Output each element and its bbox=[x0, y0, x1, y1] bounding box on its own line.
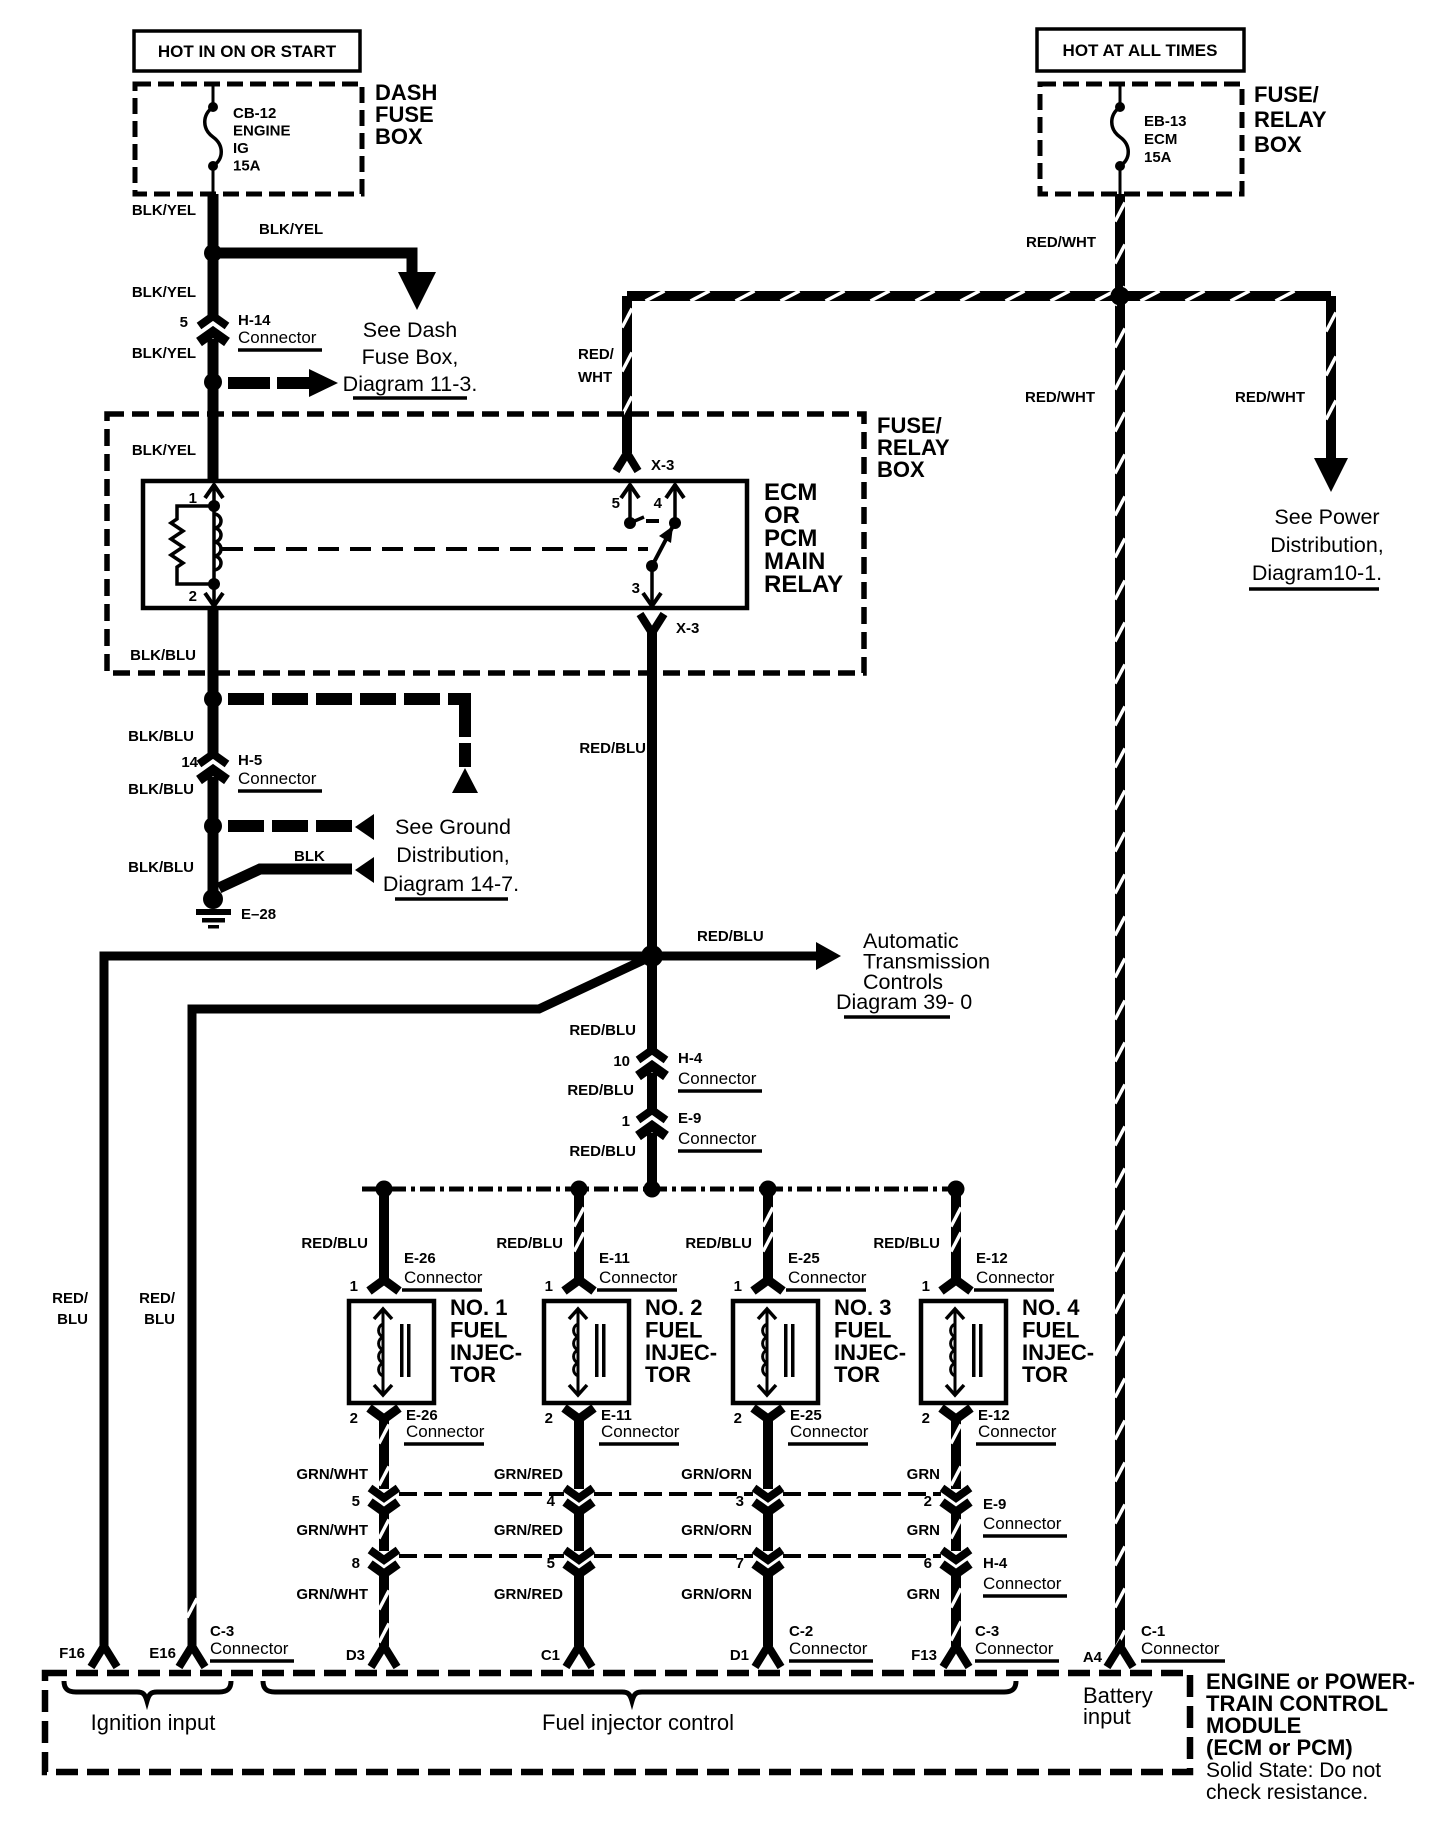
bus junction node x=956 bbox=[948, 1181, 965, 1198]
relay pin 1 wire bbox=[212, 484, 216, 506]
svg-text:RED/BLU: RED/BLU bbox=[301, 1235, 368, 1252]
wire RED/WHT horizontal bbox=[627, 291, 1331, 301]
relay actuation dashed line bbox=[222, 547, 648, 551]
connector H-5 bbox=[199, 754, 227, 780]
svg-text:RED/BLU: RED/BLU bbox=[685, 1235, 752, 1252]
connector E-26 pin 2 bbox=[369, 1408, 399, 1419]
svg-text:5: 5 bbox=[612, 495, 620, 512]
svg-text:RED/WHT: RED/WHT bbox=[1025, 389, 1095, 406]
wire GRN/WHT between rows bbox=[379, 1512, 389, 1551]
svg-text:BLK/YEL: BLK/YEL bbox=[132, 345, 196, 362]
svg-text:8: 8 bbox=[352, 1555, 360, 1572]
wire BLK/YEL below H-14 bbox=[208, 339, 219, 382]
wire BLK/YEL branch to dash fuse box arrow bbox=[213, 253, 412, 276]
svg-text:F13: F13 bbox=[911, 1647, 937, 1664]
wire RED/BLU feed injector 4 bbox=[951, 1189, 961, 1283]
junction node BLK/BLU bbox=[204, 690, 222, 708]
relay pin 3 wire bbox=[650, 566, 654, 605]
injector 3 core bars bbox=[784, 1324, 795, 1377]
svg-text:Ignition input: Ignition input bbox=[91, 1710, 216, 1735]
relay pin 4 arrow bbox=[666, 485, 684, 498]
svg-text:BLK/BLU: BLK/BLU bbox=[128, 781, 194, 798]
underline C-3 left bbox=[210, 1659, 294, 1663]
svg-text:RED/BLU: RED/BLU bbox=[496, 1235, 563, 1252]
wire RED/BLU feed injector 1 bbox=[379, 1189, 389, 1283]
svg-text:Connector: Connector bbox=[790, 1422, 869, 1441]
svg-text:C-3: C-3 bbox=[210, 1623, 234, 1640]
wire BLK/BLU below H-5 bbox=[208, 777, 219, 826]
wire GRN/ORN between rows bbox=[763, 1512, 773, 1551]
relay switch blade bbox=[652, 526, 673, 566]
svg-text:Connector: Connector bbox=[978, 1422, 1057, 1441]
dash fuse box (dashed) bbox=[135, 84, 362, 194]
svg-text:5: 5 bbox=[352, 1493, 360, 1510]
svg-text:Connector: Connector bbox=[983, 1514, 1062, 1533]
connector X-3 bottom bbox=[640, 614, 664, 633]
svg-text:E-9: E-9 bbox=[983, 1496, 1006, 1513]
bus dashed wire RED/BLU bbox=[362, 1187, 956, 1192]
relay pin 2 wire bbox=[212, 584, 216, 605]
svg-text:1: 1 bbox=[350, 1278, 358, 1295]
wire to automatic transmission controls bbox=[652, 952, 816, 961]
underline E-11 Connector bottom bbox=[599, 1442, 679, 1446]
svg-text:BLK/YEL: BLK/YEL bbox=[132, 284, 196, 301]
svg-text:F16: F16 bbox=[59, 1645, 85, 1662]
relay contact gap dash bbox=[646, 519, 659, 523]
svg-text:RED/BLU: RED/BLU bbox=[579, 740, 646, 757]
svg-text:1: 1 bbox=[734, 1278, 742, 1295]
hatch marks RED/WHT branch bbox=[1326, 313, 1336, 420]
bus junction node x=768 bbox=[760, 1181, 777, 1198]
svg-text:GRN/RED: GRN/RED bbox=[494, 1466, 563, 1483]
fuse EB-13 ECM 15A bbox=[1112, 84, 1129, 194]
svg-text:X-3: X-3 bbox=[676, 620, 699, 637]
relay pin 1 arrow bbox=[205, 485, 223, 498]
power source label HOT IN ON OR START bbox=[134, 31, 360, 71]
wire GRN/WHT to ECM bbox=[379, 1574, 389, 1646]
svg-text:GRN: GRN bbox=[907, 1466, 940, 1483]
svg-text:C-3: C-3 bbox=[975, 1623, 999, 1640]
underline H-5 Connector bbox=[238, 789, 322, 793]
underline E-12 Connector top bbox=[974, 1288, 1054, 1292]
fuse relay box top right (dashed) bbox=[1040, 84, 1242, 194]
svg-text:2: 2 bbox=[350, 1410, 358, 1427]
wire RED/BLU junction to H-4 bbox=[647, 956, 657, 1050]
underline E-11 Connector top bbox=[597, 1288, 677, 1292]
svg-text:Connector: Connector bbox=[238, 769, 317, 788]
relay node pin5 bbox=[624, 517, 636, 529]
wire BLK/YEL fuse to junction bbox=[208, 194, 219, 255]
svg-text:RED/WHT: RED/WHT bbox=[1235, 389, 1305, 406]
ECM module box (dashed) bbox=[45, 1673, 1190, 1772]
svg-text:GRN: GRN bbox=[907, 1586, 940, 1603]
underline Diagram 14-7 bbox=[395, 897, 508, 901]
relay node pin1 bbox=[208, 500, 220, 512]
svg-text:D1: D1 bbox=[730, 1647, 749, 1664]
underline Diagram 39-0 bbox=[844, 1015, 950, 1019]
relay pin 5 arrow bbox=[621, 485, 639, 498]
svg-text:RED/BLU: RED/BLU bbox=[567, 1082, 634, 1099]
wire BLK/YEL to H-14 bbox=[208, 253, 219, 316]
injector 1 core bars bbox=[400, 1324, 411, 1377]
connector E-26 pin 1 bbox=[369, 1280, 399, 1291]
svg-text:Solid State: Do notcheck resis: Solid State: Do notcheck resistance. bbox=[1206, 1759, 1381, 1804]
injector 2 box bbox=[544, 1301, 629, 1403]
underline Diagram 11-3 bbox=[353, 396, 467, 400]
svg-text:E16: E16 bbox=[149, 1645, 176, 1662]
injector 1 box bbox=[349, 1301, 434, 1403]
svg-text:GRN: GRN bbox=[907, 1522, 940, 1539]
svg-text:2: 2 bbox=[922, 1410, 930, 1427]
hatch marks RED/WHT horizontal bbox=[646, 291, 1295, 301]
svg-text:2: 2 bbox=[189, 588, 197, 605]
svg-text:GRN/ORN: GRN/ORN bbox=[681, 1466, 752, 1483]
injector 1 coil symbol bbox=[374, 1309, 392, 1395]
svg-text:GRN/WHT: GRN/WHT bbox=[296, 1466, 368, 1483]
svg-text:H-5: H-5 bbox=[238, 752, 262, 769]
bus junction node x=652 bbox=[644, 1181, 661, 1198]
connector H-4 row col 3 bbox=[754, 1550, 782, 1574]
svg-text:14: 14 bbox=[181, 754, 198, 771]
svg-text:Connector: Connector bbox=[210, 1639, 289, 1658]
wire RED/BLU feed injector 2 bbox=[574, 1189, 584, 1283]
svg-text:BLK/BLU: BLK/BLU bbox=[130, 647, 196, 664]
underline H-4 row bbox=[983, 1594, 1067, 1598]
svg-text:D3: D3 bbox=[346, 1647, 365, 1664]
connector H-14 bbox=[199, 316, 227, 342]
svg-text:Connector: Connector bbox=[1141, 1639, 1220, 1658]
relay pin 5 wire bbox=[628, 484, 632, 523]
wire GRN to ECM bbox=[951, 1574, 961, 1646]
connector E-9 row col 1 bbox=[370, 1488, 398, 1512]
hatch marks GRN/WHT wire bbox=[379, 1425, 389, 1643]
wire GRN between rows bbox=[951, 1512, 961, 1551]
relay node pin4 bbox=[669, 517, 681, 529]
svg-text:E-9: E-9 bbox=[678, 1110, 701, 1127]
wire BLK/YEL into fuse relay box bbox=[208, 382, 219, 483]
brace ignition input bbox=[64, 1681, 231, 1701]
connector H-4 row col 2 bbox=[565, 1550, 593, 1574]
junction node BLK/BLU 2 bbox=[204, 817, 222, 835]
underline C-2 bbox=[789, 1659, 873, 1663]
underline C-3 right bbox=[975, 1659, 1059, 1663]
connector E-9 bbox=[638, 1110, 666, 1136]
terminal fork C1 bbox=[566, 1646, 592, 1667]
underline E-9 Connector bbox=[678, 1149, 762, 1153]
connector E-25 pin 2 bbox=[753, 1408, 783, 1419]
svg-text:GRN/ORN: GRN/ORN bbox=[681, 1586, 752, 1603]
svg-text:4: 4 bbox=[654, 495, 663, 512]
injector 3 coil symbol bbox=[758, 1309, 776, 1395]
svg-text:1: 1 bbox=[622, 1113, 630, 1130]
svg-text:GRN/WHT: GRN/WHT bbox=[296, 1522, 368, 1539]
underline E-25 Connector bottom bbox=[788, 1442, 868, 1446]
svg-text:BLK/YEL: BLK/YEL bbox=[132, 442, 196, 459]
svg-text:Diagram 11-3.: Diagram 11-3. bbox=[343, 372, 478, 396]
relay resistor branch bbox=[171, 506, 214, 584]
relay pin 4 wire bbox=[673, 484, 677, 523]
svg-text:RED/BLU: RED/BLU bbox=[569, 1143, 636, 1160]
injector 2 core bars bbox=[595, 1324, 606, 1377]
injector 3 box bbox=[733, 1301, 818, 1403]
svg-text:Connector: Connector bbox=[404, 1268, 483, 1287]
dashed wire to ground distribution (down arrow) bbox=[228, 693, 478, 793]
wire BLK/BLU from relay bbox=[208, 609, 219, 700]
power source label HOT AT ALL TIMES bbox=[1037, 29, 1244, 71]
connector X-3 top bbox=[616, 453, 638, 471]
svg-text:BLK/BLU: BLK/BLU bbox=[128, 859, 194, 876]
underline E-26 Connector top bbox=[402, 1288, 482, 1292]
svg-text:Connector: Connector bbox=[789, 1639, 868, 1658]
arrowhead automatic transmission bbox=[816, 942, 841, 970]
svg-text:BLK/YEL: BLK/YEL bbox=[132, 202, 196, 219]
connector H-4 row col 4 bbox=[942, 1550, 970, 1574]
underline E-26 Connector bottom bbox=[404, 1442, 484, 1446]
wire BLK/BLU to H-5 bbox=[208, 699, 219, 754]
svg-text:GRN/WHT: GRN/WHT bbox=[296, 1586, 368, 1603]
arrowhead to See Dash Fuse Box bbox=[398, 272, 436, 310]
svg-text:BLK: BLK bbox=[294, 848, 325, 865]
wire GRN/ORN injector 3 to E-9 row bbox=[763, 1417, 773, 1489]
wire BLK to ground distribution bbox=[219, 869, 352, 888]
junction node bbox=[204, 244, 222, 262]
fuse relay box (dashed) bbox=[107, 414, 864, 673]
svg-text:C1: C1 bbox=[541, 1647, 560, 1664]
bus junction node x=384 bbox=[376, 1181, 393, 1198]
wire GRN/RED between rows bbox=[574, 1512, 584, 1551]
relay coil bbox=[214, 506, 221, 584]
underline H-4 Connector bbox=[678, 1089, 762, 1093]
connector E-9 row col 3 bbox=[754, 1488, 782, 1512]
svg-text:Connector: Connector bbox=[678, 1069, 757, 1088]
svg-text:A4: A4 bbox=[1083, 1649, 1103, 1666]
svg-text:E-12: E-12 bbox=[976, 1250, 1008, 1267]
connector E-9 row col 2 bbox=[565, 1488, 593, 1512]
connector H-4 bbox=[638, 1050, 666, 1076]
injector 4 box bbox=[921, 1301, 1006, 1403]
relay pin5 contact stub bbox=[630, 517, 644, 523]
hatch marks GRN wire bbox=[951, 1425, 961, 1641]
relay ECM/PCM main relay box bbox=[143, 481, 747, 608]
underline H-14 Connector bbox=[238, 348, 322, 352]
wire RED/WHT branch right bbox=[1326, 296, 1336, 460]
underline E-9 row bbox=[983, 1534, 1067, 1538]
svg-text:GRN/ORN: GRN/ORN bbox=[681, 1522, 752, 1539]
underline E-12 Connector bottom bbox=[976, 1442, 1056, 1446]
connector E-9 row col 4 bbox=[942, 1488, 970, 1512]
fuse CB-12 ENGINE IG 15A bbox=[205, 84, 222, 194]
connector E-12 pin 2 bbox=[941, 1408, 971, 1419]
dashed wire from ground distribution (left arrow) bbox=[228, 814, 374, 840]
terminal fork E16 bbox=[179, 1646, 205, 1667]
wire RED/WHT vertical to A4 bbox=[1115, 194, 1125, 1646]
svg-text:H-14: H-14 bbox=[238, 312, 271, 329]
svg-text:Connector: Connector bbox=[599, 1268, 678, 1287]
wire RED/WHT drop to X-3 bbox=[622, 296, 632, 453]
wire GRN/ORN to ECM bbox=[763, 1574, 773, 1646]
hatch marks RED/BLU feeds bbox=[574, 1208, 961, 1252]
svg-text:HOT AT ALL TIMES: HOT AT ALL TIMES bbox=[1063, 41, 1218, 60]
svg-text:BLK/YEL: BLK/YEL bbox=[259, 221, 323, 238]
svg-text:GRN/RED: GRN/RED bbox=[494, 1522, 563, 1539]
svg-text:1: 1 bbox=[922, 1278, 930, 1295]
svg-text:H-4: H-4 bbox=[678, 1050, 703, 1067]
svg-text:RED/BLU: RED/BLU bbox=[697, 928, 764, 945]
injector 4 coil symbol bbox=[946, 1309, 964, 1395]
wire RED/BLU feed injector 3 bbox=[763, 1189, 773, 1283]
svg-text:GRN/RED: GRN/RED bbox=[494, 1586, 563, 1603]
underline E-25 Connector top bbox=[786, 1288, 866, 1292]
wire RED/BLU H-4 to E-9 bbox=[647, 1073, 657, 1110]
svg-text:2: 2 bbox=[545, 1410, 553, 1427]
svg-text:10: 10 bbox=[613, 1053, 630, 1070]
underline C-1 bbox=[1141, 1659, 1225, 1663]
svg-text:2: 2 bbox=[734, 1410, 742, 1427]
svg-text:Connector: Connector bbox=[678, 1129, 757, 1148]
svg-text:BLK/BLU: BLK/BLU bbox=[128, 728, 194, 745]
svg-text:Connector: Connector bbox=[238, 328, 317, 347]
svg-text:RED/BLU: RED/BLU bbox=[873, 1235, 940, 1252]
connector H-4 row col 1 bbox=[370, 1550, 398, 1574]
svg-text:H-4: H-4 bbox=[983, 1555, 1008, 1572]
bus junction node x=579 bbox=[571, 1181, 588, 1198]
relay pin 3 arrow bbox=[643, 593, 661, 606]
terminal fork D3 bbox=[371, 1646, 397, 1667]
underline Diagram10-1 bbox=[1249, 587, 1379, 591]
junction node bbox=[204, 373, 222, 391]
terminal fork D1 bbox=[755, 1646, 781, 1667]
wire BLK/BLU to ground bbox=[208, 826, 219, 893]
wire RED/BLU to E16 bbox=[192, 956, 652, 1646]
relay switch blade arrowhead bbox=[659, 526, 673, 543]
svg-text:E-11: E-11 bbox=[599, 1250, 630, 1267]
dashed connector line H-4 row bbox=[399, 1554, 941, 1558]
arrowhead BLK (left) bbox=[355, 857, 374, 883]
wire GRN/WHT injector 1 to E-9 row bbox=[379, 1417, 389, 1489]
injector 4 core bars bbox=[972, 1324, 983, 1377]
terminal fork A4 bbox=[1107, 1646, 1133, 1667]
svg-text:HOT IN ON OR START: HOT IN ON OR START bbox=[158, 42, 337, 61]
svg-text:X-3: X-3 bbox=[651, 457, 674, 474]
junction node RED/BLU bbox=[641, 945, 663, 967]
arrowhead to See Power Distribution bbox=[1314, 458, 1348, 492]
svg-text:Connector: Connector bbox=[601, 1422, 680, 1441]
svg-text:Connector: Connector bbox=[983, 1574, 1062, 1593]
connector E-11 pin 2 bbox=[564, 1408, 594, 1419]
wire GRN/RED injector 2 to E-9 row bbox=[574, 1417, 584, 1489]
svg-text:E–28: E–28 bbox=[241, 906, 276, 923]
wire GRN/RED to ECM bbox=[574, 1574, 584, 1646]
wire GRN injector 4 to E-9 row bbox=[951, 1417, 961, 1489]
svg-text:1: 1 bbox=[545, 1278, 553, 1295]
svg-text:RED/BLU: RED/BLU bbox=[569, 1022, 636, 1039]
connector E-11 pin 1 bbox=[564, 1280, 594, 1291]
terminal fork F13 bbox=[943, 1646, 969, 1667]
hatch mark E16 wire bbox=[187, 1599, 197, 1618]
hatch marks RED/WHT vertical bbox=[1115, 203, 1125, 1650]
svg-text:E-25: E-25 bbox=[788, 1250, 820, 1267]
dashed arrow to See Dash Fuse Box diagram bbox=[228, 369, 338, 397]
wire RED/BLU from X-3 to junction bbox=[647, 630, 657, 956]
svg-text:3: 3 bbox=[632, 580, 640, 597]
brace fuel injector control bbox=[263, 1681, 1016, 1701]
svg-text:C-1: C-1 bbox=[1141, 1623, 1165, 1640]
wire RED/BLU E-9 to bus bbox=[647, 1133, 657, 1189]
dashed connector line E-9 row bbox=[399, 1492, 941, 1496]
svg-text:Diagram 39- 0: Diagram 39- 0 bbox=[836, 990, 972, 1014]
relay node pin3 bbox=[646, 560, 658, 572]
svg-text:Connector: Connector bbox=[976, 1268, 1055, 1287]
svg-text:E-26: E-26 bbox=[404, 1250, 436, 1267]
svg-text:C-2: C-2 bbox=[789, 1623, 813, 1640]
svg-text:Connector: Connector bbox=[406, 1422, 485, 1441]
injector 2 coil symbol bbox=[569, 1309, 587, 1395]
connector E-12 pin 1 bbox=[941, 1280, 971, 1291]
relay node pin2 bbox=[208, 578, 220, 590]
hatch marks RED/WHT drop bbox=[622, 309, 632, 416]
svg-text:Fuel injector control: Fuel injector control bbox=[542, 1710, 734, 1735]
svg-text:Connector: Connector bbox=[975, 1639, 1054, 1658]
connector E-25 pin 1 bbox=[753, 1280, 783, 1291]
junction node RED/WHT bbox=[1111, 287, 1130, 306]
svg-text:RED/WHT: RED/WHT bbox=[1026, 234, 1096, 251]
svg-text:Connector: Connector bbox=[788, 1268, 867, 1287]
ground symbol E-28 bbox=[196, 889, 231, 929]
terminal fork F16 bbox=[91, 1646, 117, 1667]
relay pin 2 arrow bbox=[205, 593, 223, 606]
svg-text:5: 5 bbox=[180, 314, 188, 331]
svg-text:Diagram10-1.: Diagram10-1. bbox=[1252, 561, 1382, 585]
wire RED/BLU to F16 bbox=[104, 956, 652, 1646]
svg-text:Diagram 14-7.: Diagram 14-7. bbox=[383, 872, 519, 896]
